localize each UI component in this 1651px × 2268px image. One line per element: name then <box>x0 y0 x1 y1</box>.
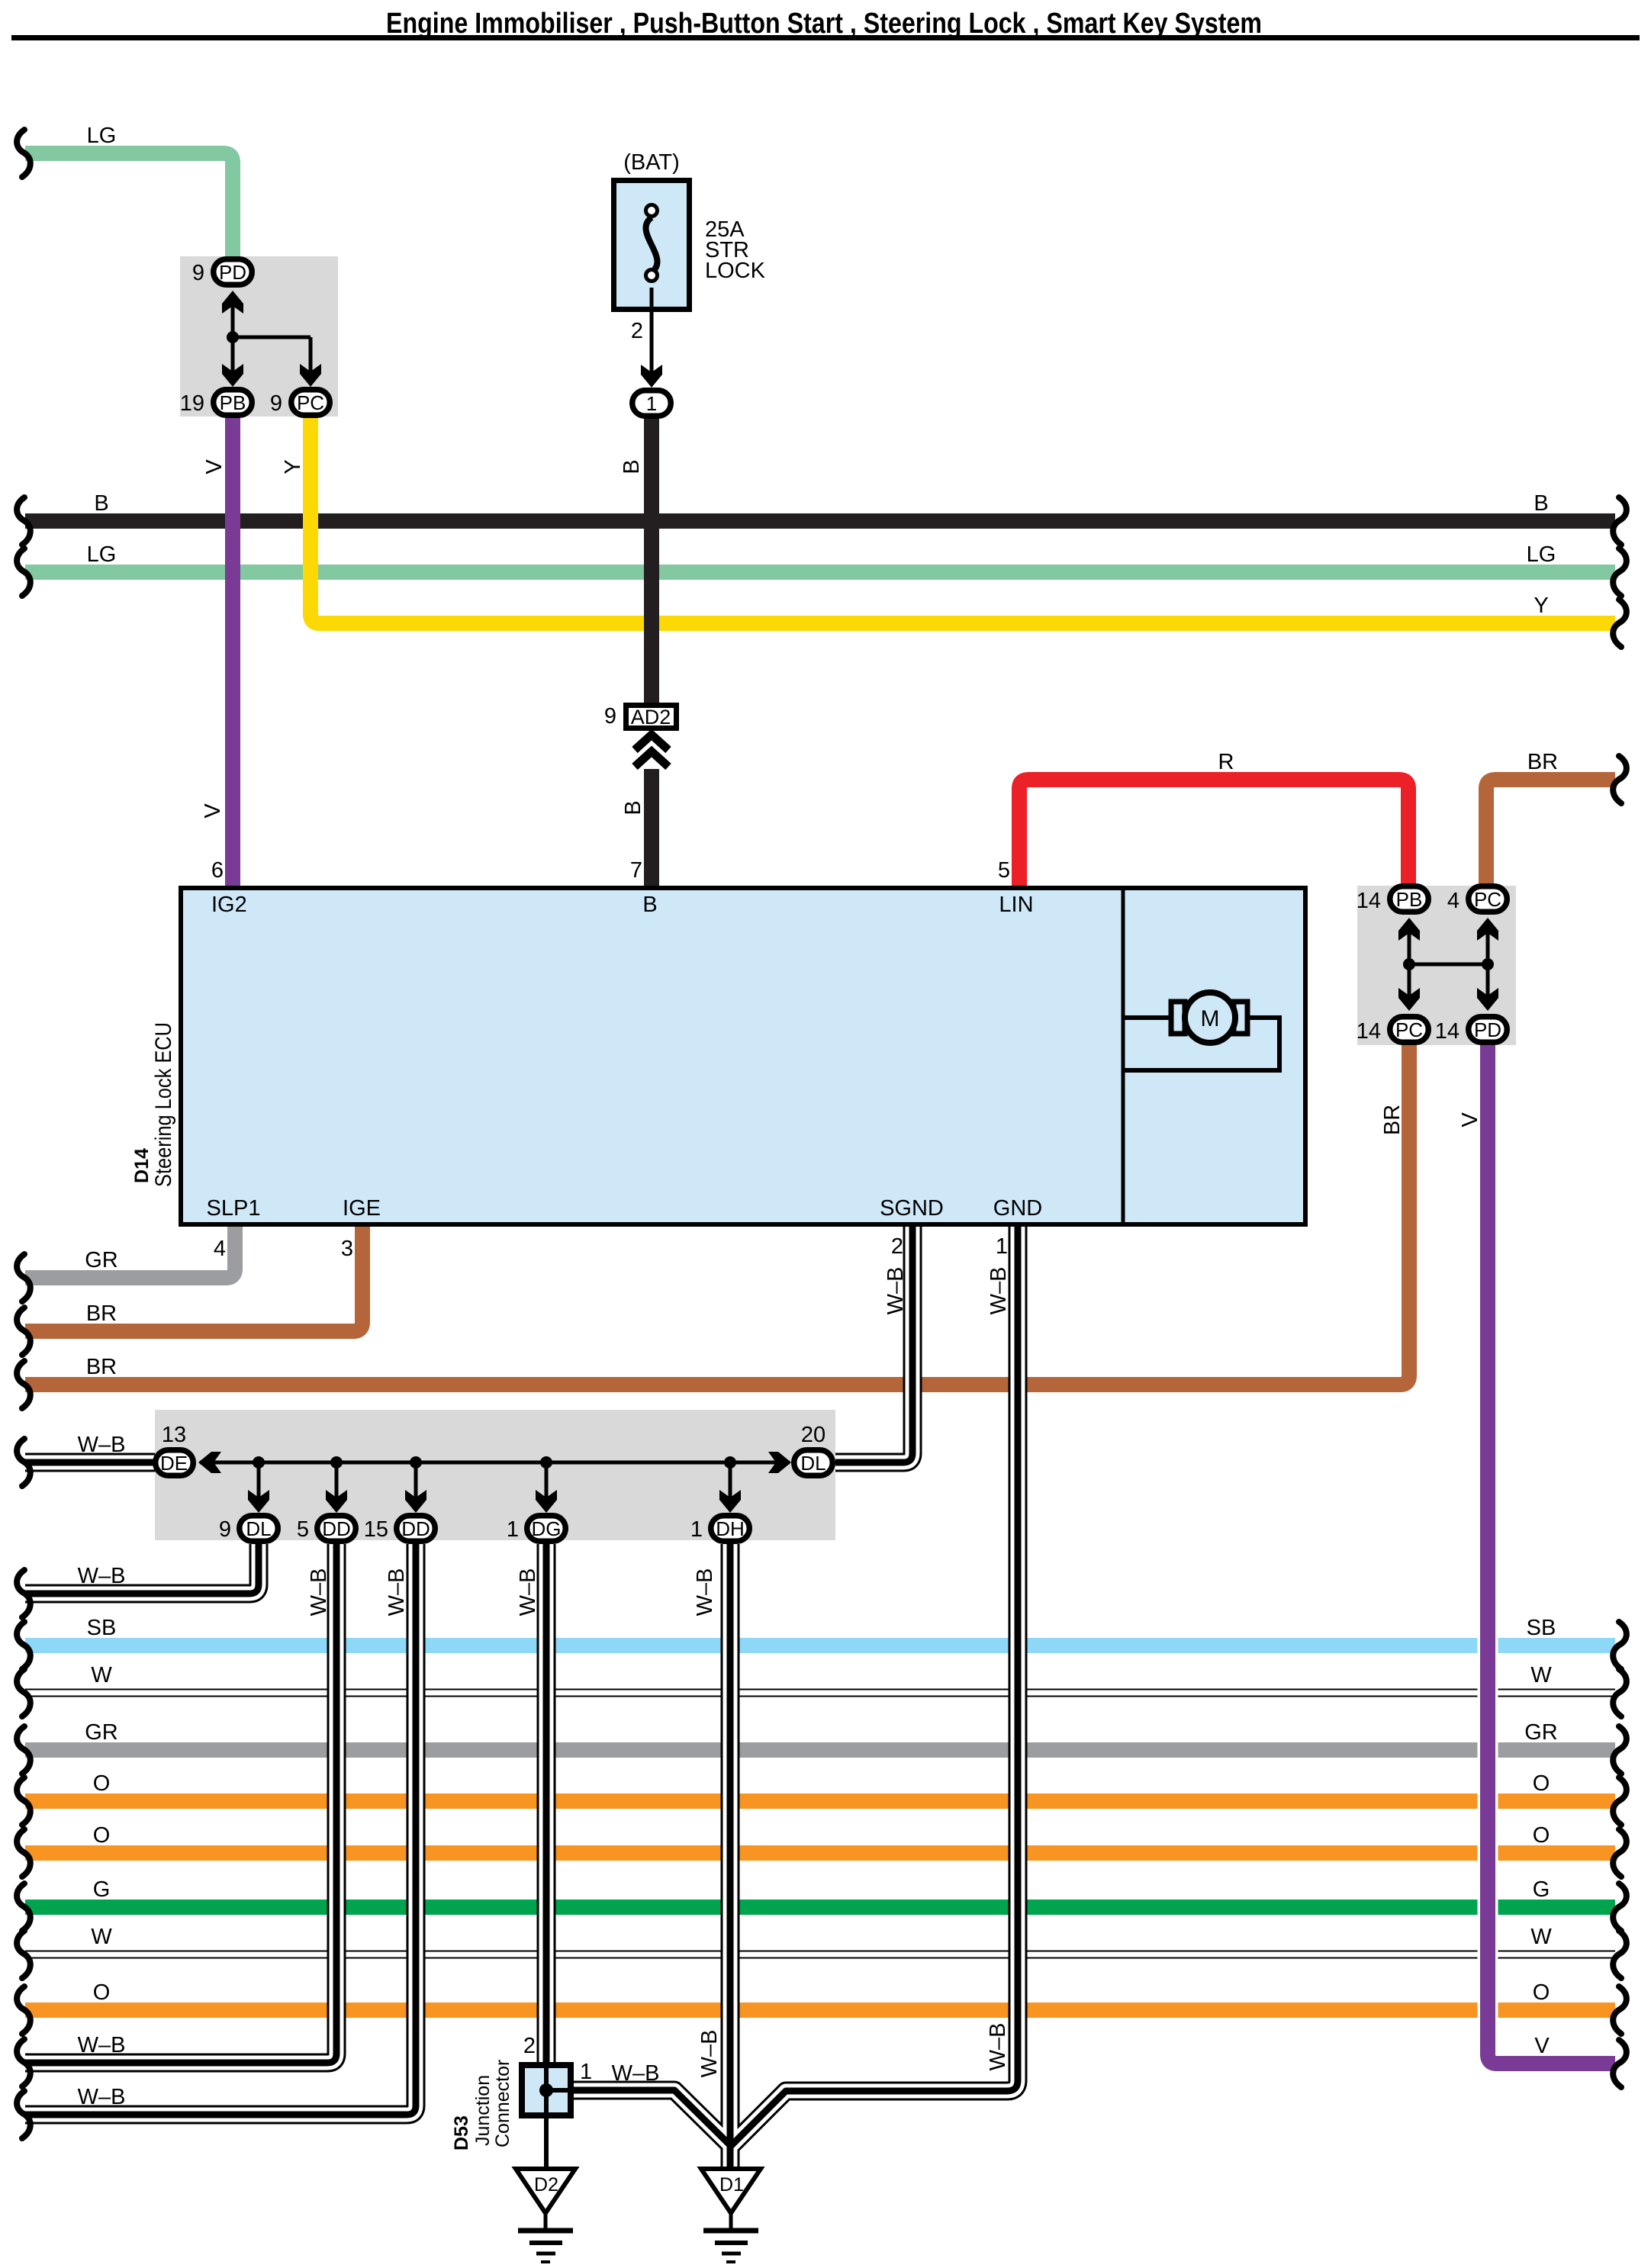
wire end brace right O <box>1613 1987 1627 2034</box>
svg-text:14: 14 <box>1435 1019 1460 1044</box>
svg-text:SB: SB <box>1527 1616 1556 1640</box>
connector PD (pin 9) <box>214 259 253 285</box>
svg-text:W: W <box>91 1663 112 1687</box>
svg-text:SGND: SGND <box>880 1196 944 1221</box>
svg-text:6: 6 <box>211 858 224 883</box>
svg-text:4: 4 <box>1447 889 1460 913</box>
wire D53 to ground D2 <box>544 2118 549 2170</box>
wire LG into connector PD <box>25 153 233 256</box>
wire O bus <box>25 2003 1615 2018</box>
svg-text:4: 4 <box>214 1237 226 1261</box>
svg-text:G: G <box>93 1877 111 1902</box>
wire BR bus from left edge to connector PC (bottom) <box>25 1045 1409 1385</box>
svg-text:LG: LG <box>87 124 117 148</box>
wire GR from ECU pin 4 SLP1 to left edge <box>25 1227 235 1278</box>
wire end brace right Y <box>1613 600 1627 647</box>
svg-text:B: B <box>620 459 644 474</box>
svg-text:W: W <box>91 1925 112 1949</box>
svg-text:14: 14 <box>1357 889 1381 913</box>
wire W bus <box>25 1951 1615 1959</box>
wire end brace right O <box>1613 1777 1627 1825</box>
svg-text:W–B: W–B <box>883 1267 908 1315</box>
connector 1 (fuse output) <box>632 391 671 417</box>
wire W-B DD (5) to left edge <box>25 1544 336 2063</box>
svg-text:Junction: Junction <box>472 2075 494 2146</box>
svg-text:GR: GR <box>85 1248 118 1272</box>
svg-text:BR: BR <box>86 1301 117 1326</box>
wire V from connector PB to ECU pin 6 IG2 <box>225 418 240 886</box>
connector shield box (right PB/PC/PC/PD) <box>1357 886 1516 1045</box>
svg-text:D14: D14 <box>131 1148 153 1183</box>
svg-text:W–B: W–B <box>986 1267 1011 1315</box>
wire B from AD2 to ECU pin 7 B <box>644 769 659 886</box>
wire O bus <box>25 1793 1615 1809</box>
wire BR from ECU pin 3 IGE to left edge <box>25 1227 362 1331</box>
svg-text:SLP1: SLP1 <box>207 1196 261 1221</box>
svg-text:DD: DD <box>322 1517 351 1540</box>
svg-text:O: O <box>1533 1771 1550 1796</box>
connector D53 Junction Connector <box>522 2062 574 2118</box>
fuse F1 25A STR LOCK (BAT) <box>614 181 690 381</box>
svg-text:DH: DH <box>716 1517 745 1540</box>
connector PC pin 4 (right top) <box>1469 886 1508 912</box>
connector DD pin 5 <box>317 1516 356 1542</box>
wire end brace left W-B <box>17 1570 31 1617</box>
svg-text:W–B: W–B <box>693 1568 717 1617</box>
ground D2 <box>516 2169 575 2262</box>
svg-text:DL: DL <box>246 1517 271 1540</box>
svg-text:(BAT): (BAT) <box>623 150 680 175</box>
svg-text:Y: Y <box>1534 594 1548 618</box>
wire end brace left W <box>17 1669 31 1716</box>
svg-text:M: M <box>1201 1006 1220 1031</box>
title: Engine Immobiliser , Push-Button Start , Steering Lock , Smart Key System <box>11 8 1640 40</box>
svg-text:PD: PD <box>1474 1018 1501 1041</box>
svg-text:Y: Y <box>281 459 305 474</box>
connector DE pin 13 <box>156 1450 194 1476</box>
svg-text:AD2: AD2 <box>631 706 671 729</box>
svg-text:W–B: W–B <box>78 1433 126 1457</box>
svg-text:IGE: IGE <box>343 1196 381 1221</box>
svg-text:LG: LG <box>87 542 117 567</box>
junction connector shield box (DE/DL/DD/DG/DH) <box>155 1410 835 1540</box>
node junctions and arrows (right connector) <box>1398 918 1498 1011</box>
svg-text:3: 3 <box>341 1237 353 1261</box>
svg-text:V: V <box>1534 2034 1550 2058</box>
svg-text:LOCK: LOCK <box>705 259 766 283</box>
wire end brace right O <box>1613 1829 1627 1877</box>
wire end brace left LG <box>17 549 31 596</box>
wire end brace left W-B <box>17 2039 31 2086</box>
wire end brace left LG <box>17 130 31 177</box>
wire W-B DH / D53 pin 1 / GND to ground D1 <box>574 1227 1018 2169</box>
wire end brace right SB <box>1613 1622 1627 1669</box>
wire end brace left SB <box>17 1622 31 1669</box>
svg-text:W–B: W–B <box>78 1564 126 1588</box>
node junction and arrows (top-left connector) <box>222 291 321 387</box>
arrow into connector 1 <box>641 365 662 388</box>
connector PC pin 14 (right bottom) <box>1390 1017 1429 1043</box>
svg-text:2: 2 <box>891 1234 903 1259</box>
svg-text:PC: PC <box>1395 1018 1423 1041</box>
svg-text:B: B <box>1534 491 1548 516</box>
svg-text:PD: PD <box>219 261 246 284</box>
svg-text:PB: PB <box>1396 888 1423 911</box>
wire end brace left W <box>17 1931 31 1978</box>
wire W-B DL to left edge <box>25 1544 259 1594</box>
wire W-B DG to junction connector D53 <box>537 1544 556 2064</box>
svg-text:GR: GR <box>85 1720 118 1745</box>
wire end brace left BR <box>17 1361 31 1408</box>
svg-text:BR: BR <box>1380 1105 1405 1135</box>
wire B bus <box>25 513 1615 529</box>
svg-text:15: 15 <box>364 1517 388 1542</box>
wire end brace left GR <box>17 1726 31 1774</box>
wire end brace right V <box>1613 2040 1627 2087</box>
connector PC (pin 9) <box>291 390 330 416</box>
svg-text:9: 9 <box>270 391 282 416</box>
wire O bus <box>25 1845 1615 1861</box>
svg-text:SB: SB <box>87 1616 117 1640</box>
svg-text:W–B: W–B <box>516 1568 540 1617</box>
svg-text:Steering Lock ECU: Steering Lock ECU <box>151 1022 176 1187</box>
wire LG bus <box>25 565 1615 580</box>
svg-text:DG: DG <box>532 1517 562 1540</box>
svg-text:1: 1 <box>507 1517 519 1542</box>
svg-text:W: W <box>1530 1925 1552 1949</box>
wire end brace left W-B <box>17 2091 31 2138</box>
svg-text:5: 5 <box>297 1517 309 1542</box>
svg-text:Engine Immobiliser , Push-Butt: Engine Immobiliser , Push-Button Start ,… <box>386 8 1262 40</box>
svg-text:9: 9 <box>219 1517 231 1542</box>
svg-text:1: 1 <box>996 1234 1008 1259</box>
wire W-B DD (15) to left edge <box>25 1544 416 2115</box>
connector AD2 <box>626 706 677 729</box>
svg-text:PC: PC <box>1474 888 1501 911</box>
svg-text:O: O <box>93 1823 111 1848</box>
connector DL pin 9 <box>240 1516 278 1542</box>
wire BR from right edge to connector PC (top right) <box>1486 780 1615 883</box>
svg-text:B: B <box>621 800 645 815</box>
wire R from ECU pin 5 LIN to connector PB (right) <box>1019 780 1408 886</box>
connector shield box (top-left PD/PB/PC) <box>180 256 338 417</box>
connector DG pin 1 <box>527 1516 566 1542</box>
wire end brace right B <box>1613 497 1627 545</box>
connector PD pin 14 (right bottom) <box>1469 1017 1508 1043</box>
wire end brace right LG <box>1613 549 1627 596</box>
svg-text:W–B: W–B <box>78 2085 126 2109</box>
svg-text:DE: DE <box>160 1452 188 1475</box>
wire W-B into DE <box>25 1453 155 1472</box>
connector PB pin 14 (right) <box>1390 886 1429 912</box>
svg-text:1: 1 <box>646 392 657 415</box>
svg-text:B: B <box>94 491 108 516</box>
svg-text:9: 9 <box>192 261 204 285</box>
op-amp U1 / ECU D14 Steering Lock ECU box <box>181 886 1305 1227</box>
svg-text:W–B: W–B <box>612 2061 660 2086</box>
wire end brace right W <box>1613 1669 1627 1716</box>
svg-text:D2: D2 <box>534 2174 558 2196</box>
wire end brace left O <box>17 1987 31 2034</box>
svg-text:W–B: W–B <box>385 1568 409 1617</box>
svg-text:13: 13 <box>162 1423 186 1447</box>
svg-text:GR: GR <box>1524 1720 1558 1745</box>
svg-text:G: G <box>1533 1877 1550 1902</box>
svg-text:O: O <box>93 1980 111 2005</box>
wire junction bus DE to DL with junctions <box>198 1452 791 1513</box>
motor M inside steering lock ECU <box>1123 992 1279 1070</box>
svg-text:19: 19 <box>180 391 204 416</box>
wire W bus <box>25 1689 1615 1697</box>
svg-text:20: 20 <box>801 1423 826 1447</box>
svg-text:O: O <box>1533 1980 1550 2005</box>
wire W-B SGND to DL <box>835 1227 912 1462</box>
svg-text:2: 2 <box>631 319 643 343</box>
svg-text:V: V <box>202 459 227 475</box>
svg-text:DD: DD <box>401 1517 430 1540</box>
svg-text:1: 1 <box>580 2060 592 2084</box>
wire end brace left GR <box>17 1254 31 1301</box>
svg-text:IG2: IG2 <box>211 893 247 917</box>
connector DD pin 15 <box>397 1516 436 1542</box>
ground D1 <box>701 2169 761 2262</box>
svg-text:D53: D53 <box>451 2115 472 2151</box>
svg-text:R: R <box>1218 750 1234 774</box>
svg-text:BR: BR <box>86 1355 117 1379</box>
svg-text:B: B <box>642 893 657 917</box>
chevron arrows below AD2 <box>635 735 668 767</box>
svg-text:V: V <box>201 803 225 819</box>
svg-text:Connector: Connector <box>492 2060 513 2147</box>
svg-text:GND: GND <box>993 1196 1042 1221</box>
svg-text:PC: PC <box>297 391 324 414</box>
wire end brace left BR <box>17 1308 31 1355</box>
wire end brace right G <box>1613 1884 1627 1931</box>
svg-text:DL: DL <box>800 1452 826 1475</box>
svg-text:LG: LG <box>1527 542 1556 567</box>
wire end brace right BR <box>1613 756 1627 803</box>
svg-text:W–B: W–B <box>307 1568 331 1617</box>
svg-text:D1: D1 <box>719 2174 744 2196</box>
wire end brace left G <box>17 1884 31 1931</box>
svg-text:LIN: LIN <box>999 893 1033 917</box>
connector PB (pin 19) <box>214 390 253 416</box>
svg-text:W–B: W–B <box>78 2033 126 2057</box>
wire end brace left B <box>17 497 31 545</box>
wire G bus <box>25 1900 1615 1915</box>
wire GR bus <box>25 1742 1615 1758</box>
wire end brace left O <box>17 1829 31 1877</box>
svg-text:5: 5 <box>998 858 1010 883</box>
wire end brace left O <box>17 1777 31 1825</box>
svg-text:BR: BR <box>1527 750 1558 774</box>
svg-text:W: W <box>1530 1663 1552 1687</box>
connector DH pin 1 <box>711 1516 750 1542</box>
svg-text:9: 9 <box>604 704 616 729</box>
wire end brace right GR <box>1613 1726 1627 1774</box>
svg-text:1: 1 <box>690 1517 703 1542</box>
wire V from connector PD (right) to right edge <box>1488 1045 1615 2064</box>
wire SB bus <box>25 1638 1615 1653</box>
svg-text:O: O <box>93 1771 111 1796</box>
svg-text:W–B: W–B <box>986 2023 1010 2071</box>
wire Y from connector PC to right edge <box>311 418 1615 623</box>
svg-text:W–B: W–B <box>697 2030 722 2078</box>
wire end brace right W <box>1613 1931 1627 1978</box>
value label 25A STR LOCK <box>705 217 766 283</box>
connector DL pin 20 <box>794 1450 833 1476</box>
svg-text:2: 2 <box>523 2034 536 2058</box>
svg-text:7: 7 <box>630 858 642 883</box>
svg-text:14: 14 <box>1357 1019 1381 1044</box>
wire B from fuse connector 1 to AD2 <box>644 418 659 703</box>
svg-text:O: O <box>1533 1823 1550 1848</box>
svg-text:PB: PB <box>220 391 246 414</box>
svg-text:V: V <box>1458 1112 1482 1128</box>
wire end brace left W-B <box>17 1439 31 1486</box>
